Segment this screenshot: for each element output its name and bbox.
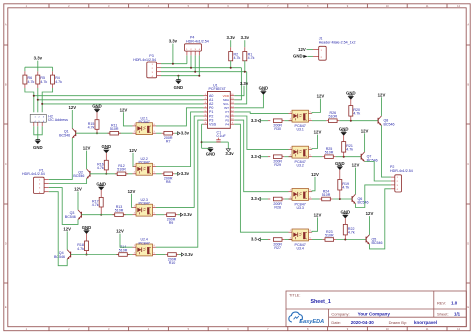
svg-text:I2C Address: I2C Address bbox=[48, 118, 68, 122]
svg-text:E: E bbox=[467, 305, 469, 309]
svg-text:12V: 12V bbox=[298, 47, 306, 52]
svg-text:4.7k: 4.7k bbox=[77, 247, 84, 251]
svg-text:Company:: Company: bbox=[331, 312, 349, 317]
svg-text:12V: 12V bbox=[361, 128, 369, 133]
svg-text:Sheet:: Sheet: bbox=[437, 312, 449, 317]
svg-text:3.3v: 3.3v bbox=[185, 252, 194, 257]
svg-text:TITLE:: TITLE: bbox=[289, 294, 300, 298]
svg-text:BC546: BC546 bbox=[54, 255, 65, 259]
svg-text:PC847: PC847 bbox=[139, 202, 150, 206]
svg-text:3.3v: 3.3v bbox=[181, 131, 190, 136]
svg-text:PC847: PC847 bbox=[139, 241, 150, 245]
svg-text:REV:: REV: bbox=[437, 301, 446, 306]
svg-text:PC847: PC847 bbox=[139, 120, 150, 124]
svg-text:GND: GND bbox=[33, 145, 43, 150]
svg-text:510R: 510R bbox=[119, 248, 128, 252]
svg-text:R9: R9 bbox=[169, 221, 174, 225]
svg-text:D: D bbox=[467, 242, 469, 246]
svg-text:3.3v: 3.3v bbox=[240, 81, 249, 86]
svg-text:12V: 12V bbox=[74, 187, 82, 192]
svg-text:4.7k: 4.7k bbox=[234, 56, 241, 60]
svg-text:R29: R29 bbox=[274, 163, 281, 167]
svg-text:BC546: BC546 bbox=[358, 201, 369, 205]
svg-text:BC546: BC546 bbox=[65, 215, 76, 219]
svg-text:B: B bbox=[5, 83, 7, 87]
svg-text:4.7k: 4.7k bbox=[88, 126, 95, 130]
svg-text:GND: GND bbox=[206, 151, 216, 156]
svg-text:12V: 12V bbox=[128, 189, 136, 194]
svg-text:HDR-4x1/2.54: HDR-4x1/2.54 bbox=[22, 172, 45, 176]
svg-text:12V: 12V bbox=[352, 163, 360, 168]
svg-text:3.3: 3.3 bbox=[251, 237, 258, 242]
svg-text:1/1: 1/1 bbox=[454, 312, 461, 317]
svg-text:3.3: 3.3 bbox=[251, 196, 258, 201]
svg-text:3.3v: 3.3v bbox=[241, 35, 250, 40]
svg-text:510R: 510R bbox=[322, 193, 331, 197]
svg-text:1.0: 1.0 bbox=[451, 301, 458, 306]
svg-text:4.7k: 4.7k bbox=[346, 148, 353, 152]
svg-text:4.7k: 4.7k bbox=[248, 56, 255, 60]
svg-text:4.7k: 4.7k bbox=[353, 112, 360, 116]
svg-text:HDR-4x1/2.54: HDR-4x1/2.54 bbox=[186, 39, 209, 43]
svg-text:4.7k: 4.7k bbox=[97, 166, 104, 170]
svg-text:0.1uF: 0.1uF bbox=[217, 134, 227, 138]
svg-text:4.7k: 4.7k bbox=[348, 230, 355, 234]
svg-text:R30: R30 bbox=[274, 127, 281, 131]
svg-text:C: C bbox=[467, 162, 469, 166]
svg-text:12V: 12V bbox=[83, 146, 91, 151]
svg-text:EasyEDA: EasyEDA bbox=[299, 319, 324, 325]
svg-text:2020-04-30: 2020-04-30 bbox=[351, 320, 375, 325]
svg-text:HDR-4x1/2.54: HDR-4x1/2.54 bbox=[390, 169, 413, 173]
svg-text:510R: 510R bbox=[325, 233, 334, 237]
svg-text:12V: 12V bbox=[116, 229, 124, 234]
svg-text:510R: 510R bbox=[110, 127, 119, 131]
svg-text:12V: 12V bbox=[314, 130, 322, 135]
svg-text:3.3v: 3.3v bbox=[34, 56, 43, 61]
svg-text:Sheet_1: Sheet_1 bbox=[311, 299, 331, 305]
svg-text:U3.1: U3.1 bbox=[296, 128, 303, 132]
svg-text:510R: 510R bbox=[329, 115, 338, 119]
svg-text:R7: R7 bbox=[166, 140, 171, 144]
svg-text:D: D bbox=[5, 242, 7, 246]
svg-text:4.7k: 4.7k bbox=[28, 80, 35, 84]
svg-text:VSS: VSS bbox=[209, 122, 217, 126]
svg-text:U3.3: U3.3 bbox=[296, 206, 303, 210]
svg-text:12V: 12V bbox=[311, 172, 319, 177]
svg-text:12V: 12V bbox=[63, 226, 71, 231]
svg-text:PC847: PC847 bbox=[139, 161, 150, 165]
svg-text:R10: R10 bbox=[169, 261, 176, 265]
svg-text:12V: 12V bbox=[129, 148, 137, 153]
svg-text:Your Company: Your Company bbox=[358, 312, 391, 317]
svg-text:3.3: 3.3 bbox=[251, 154, 258, 159]
svg-text:R27: R27 bbox=[274, 246, 281, 250]
svg-text:3.3v: 3.3v bbox=[169, 39, 178, 44]
svg-text:U3.4: U3.4 bbox=[296, 246, 303, 250]
svg-text:PCF8574T: PCF8574T bbox=[209, 87, 227, 91]
svg-text:GND: GND bbox=[293, 54, 303, 59]
svg-text:E: E bbox=[5, 305, 7, 309]
svg-text:A: A bbox=[5, 22, 7, 26]
svg-text:A: A bbox=[467, 22, 469, 26]
svg-text:C: C bbox=[5, 162, 7, 166]
svg-text:4.7k: 4.7k bbox=[92, 203, 99, 207]
svg-text:B: B bbox=[467, 83, 469, 87]
svg-text:12V: 12V bbox=[366, 211, 374, 216]
svg-text:BC546: BC546 bbox=[59, 134, 70, 138]
svg-text:BC546: BC546 bbox=[372, 241, 383, 245]
svg-text:BC546: BC546 bbox=[384, 122, 395, 126]
svg-text:knorrpavel: knorrpavel bbox=[414, 320, 437, 325]
svg-text:BC546: BC546 bbox=[73, 174, 84, 178]
svg-text:U3.2: U3.2 bbox=[296, 164, 303, 168]
svg-text:3.3v: 3.3v bbox=[181, 171, 190, 176]
svg-text:12V: 12V bbox=[68, 105, 76, 110]
svg-text:Date:: Date: bbox=[331, 320, 341, 325]
svg-text:4.7k: 4.7k bbox=[55, 80, 62, 84]
svg-text:3.3: 3.3 bbox=[251, 118, 258, 123]
svg-text:R8: R8 bbox=[166, 180, 171, 184]
svg-text:12V: 12V bbox=[317, 94, 325, 99]
svg-text:12V: 12V bbox=[120, 107, 128, 112]
svg-text:12V: 12V bbox=[378, 92, 386, 97]
svg-text:Header-Male-2.54_1x2: Header-Male-2.54_1x2 bbox=[319, 41, 356, 45]
svg-text:P4: P4 bbox=[225, 122, 229, 126]
svg-text:4.7k: 4.7k bbox=[342, 186, 349, 190]
svg-text:510R: 510R bbox=[117, 168, 126, 172]
svg-text:Drawn By:: Drawn By: bbox=[389, 320, 407, 325]
svg-text:GND: GND bbox=[174, 85, 184, 90]
svg-text:510R: 510R bbox=[115, 209, 124, 213]
svg-text:12V: 12V bbox=[314, 212, 322, 217]
svg-text:4.7k: 4.7k bbox=[40, 80, 47, 84]
svg-text:R28: R28 bbox=[274, 205, 281, 209]
svg-text:3.3v: 3.3v bbox=[225, 151, 234, 156]
svg-text:510R: 510R bbox=[325, 151, 334, 155]
svg-text:3.3v: 3.3v bbox=[227, 35, 236, 40]
svg-text:HDR-4x1/2.54: HDR-4x1/2.54 bbox=[133, 58, 156, 62]
svg-text:3.3v: 3.3v bbox=[184, 212, 193, 217]
